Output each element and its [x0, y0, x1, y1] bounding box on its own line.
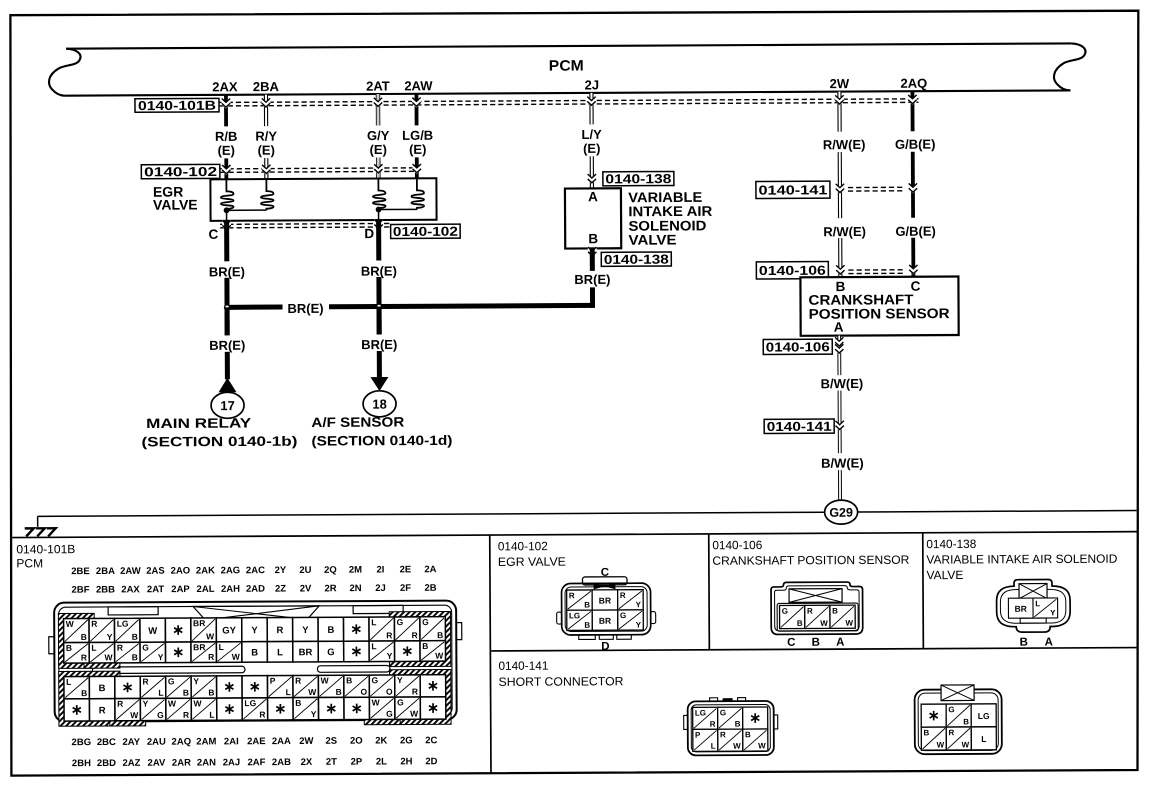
- EGR coil pair join wire left: [227, 209, 267, 211]
- svg-text:2B: 2B: [424, 583, 436, 594]
- PCM connector cell r1c13 L/R: [369, 617, 395, 641]
- short connector right cell r2c1 B/W: [921, 727, 946, 750]
- svg-text:W: W: [130, 710, 139, 720]
- EGR junction dot right: [376, 207, 382, 213]
- short connector left cell r2c1 P/L: [693, 729, 718, 751]
- VISV connector key with cross: [1019, 584, 1047, 599]
- svg-text:G: G: [168, 676, 175, 686]
- svg-text:L: L: [158, 688, 163, 698]
- svg-text:2X: 2X: [301, 757, 313, 768]
- svg-text:L: L: [209, 710, 214, 720]
- svg-text:L: L: [219, 642, 224, 652]
- wire BR(E) to A/F sensor: [377, 307, 382, 335]
- EGR coil winding pin 2AX: [221, 179, 234, 210]
- CKP connector cell frame: [777, 603, 858, 631]
- svg-text:G: G: [386, 709, 393, 719]
- svg-text:2AX: 2AX: [121, 584, 140, 595]
- short connector right cell r1c2 G/B: [946, 704, 971, 727]
- PCM connector cell r1c3 LG/B: [114, 618, 140, 642]
- PCM connector cell r1c12 *: [344, 617, 370, 641]
- svg-text:GY: GY: [222, 625, 236, 636]
- PCM housing slot left: [92, 666, 245, 673]
- svg-text:2AK: 2AK: [196, 565, 215, 576]
- svg-text:2M: 2M: [349, 565, 362, 576]
- PCM housing tab left: [108, 607, 158, 615]
- svg-text:2G: 2G: [400, 735, 413, 746]
- svg-text:Y: Y: [1050, 608, 1056, 617]
- PCM connector cell r4c4 Y/G: [140, 698, 166, 720]
- svg-text:2U: 2U: [299, 565, 311, 576]
- svg-text:2Q: 2Q: [324, 565, 337, 576]
- svg-text:VALVE: VALVE: [628, 231, 676, 247]
- svg-text:(E): (E): [583, 141, 600, 156]
- EGR coil winding pin 2BA: [261, 179, 274, 210]
- svg-text:VALVE: VALVE: [926, 568, 963, 582]
- svg-text:0140-101B: 0140-101B: [16, 542, 75, 556]
- svg-text:2AL: 2AL: [197, 584, 215, 595]
- svg-text:BR: BR: [299, 647, 313, 658]
- EGR connector cell r2c1 LG/B: [567, 610, 593, 630]
- wire label R/Y (E): [255, 129, 277, 158]
- svg-text:W: W: [148, 626, 157, 637]
- hatched frame row4 col3: [112, 696, 143, 724]
- PCM connector cell r3c11 W/B: [318, 675, 344, 697]
- svg-text:LG: LG: [117, 619, 129, 629]
- PCM connector cell r1c8 Y: [242, 618, 268, 642]
- svg-text:2AH: 2AH: [221, 584, 240, 595]
- svg-text:D: D: [364, 226, 374, 241]
- svg-text:B: B: [81, 632, 87, 642]
- EGR connector cell r2c2 BR: [592, 610, 618, 630]
- svg-text:LG: LG: [244, 698, 256, 708]
- PCM connector cell r2c11 G: [318, 641, 344, 662]
- wire BR(E) pin D upper segment: [376, 220, 382, 334]
- short connector right key with cross: [941, 685, 974, 701]
- connector chevron 0140-141 at 2W wire: [836, 183, 845, 194]
- svg-text:W: W: [962, 740, 970, 749]
- arrowhead to A/F sensor (down): [370, 377, 388, 391]
- svg-text:2E: 2E: [400, 564, 412, 575]
- PCM connector cell r4c3 R/W: [115, 698, 141, 720]
- svg-text:0140-106: 0140-106: [766, 339, 830, 354]
- PCM connector cell r3c9 P/L: [267, 675, 293, 697]
- panel divider vertical 2: [708, 534, 711, 650]
- svg-text:B: B: [208, 687, 214, 697]
- svg-text:BR: BR: [193, 618, 205, 628]
- svg-text:2AO: 2AO: [171, 566, 191, 577]
- svg-text:L: L: [91, 643, 96, 653]
- svg-text:B: B: [66, 643, 72, 653]
- svg-text:B: B: [584, 621, 590, 630]
- connector chevron pin D: [374, 219, 383, 230]
- svg-text:G: G: [397, 697, 404, 707]
- svg-text:R: R: [295, 676, 301, 686]
- PCM connector cell r2c15 B/W: [420, 641, 446, 662]
- PCM connector cell r1c4 W: [140, 618, 166, 642]
- svg-text:0140-138: 0140-138: [604, 252, 669, 267]
- CKP connector cell C G/B: [780, 605, 805, 628]
- PCM connector cell r4c1 *: [64, 699, 90, 721]
- svg-text:CRANKSHAFT POSITION SENSOR: CRANKSHAFT POSITION SENSOR: [712, 553, 909, 568]
- svg-text:A: A: [834, 320, 844, 335]
- svg-text:R: R: [386, 630, 392, 640]
- svg-text:R: R: [117, 699, 123, 709]
- wire label G/Y (E): [367, 128, 390, 157]
- PCM connector cell r4c2 R: [89, 699, 115, 721]
- CKP connector pin labels C B A: [787, 637, 844, 649]
- short connector right cell r2c2 R/W: [946, 727, 971, 750]
- label box 0140-141 lower: [764, 419, 834, 433]
- svg-text:B: B: [183, 688, 189, 698]
- svg-text:2Y: 2Y: [275, 565, 287, 576]
- svg-text:2BH: 2BH: [72, 758, 91, 769]
- svg-text:Y: Y: [636, 620, 642, 629]
- svg-text:(SECTION 0140-1b): (SECTION 0140-1b): [141, 434, 297, 450]
- PCM connector cell r3c10 R/W: [293, 675, 319, 697]
- EGR connector housing: [556, 577, 655, 640]
- hatched frame top-right: [392, 614, 448, 664]
- svg-text:2AW: 2AW: [120, 566, 141, 577]
- PCM connector cell r2c6 BR/R: [191, 642, 217, 663]
- svg-text:R: R: [259, 709, 265, 719]
- svg-text:L: L: [371, 617, 376, 627]
- short connector left cell r2c2 R/W: [718, 729, 743, 751]
- svg-text:W: W: [820, 619, 828, 628]
- PCM connector cell r2c14 *: [395, 641, 421, 662]
- svg-text:G: G: [422, 617, 429, 627]
- svg-text:W: W: [758, 741, 766, 750]
- svg-text:(SECTION 0140-1d): (SECTION 0140-1d): [311, 433, 452, 449]
- PCM connector cell r3c13 G/O: [369, 675, 395, 697]
- svg-text:BR: BR: [193, 642, 205, 652]
- connector chevron 0140-101B at 2AX: [222, 98, 231, 109]
- svg-text:2AF: 2AF: [247, 757, 265, 768]
- ground bus line: [38, 511, 1137, 517]
- connector chevron 0140-101B at 2J: [587, 96, 596, 107]
- svg-text:B: B: [1020, 637, 1028, 649]
- svg-text:P: P: [270, 676, 276, 686]
- svg-text:B: B: [735, 720, 741, 729]
- CKP connector cell B R/W: [805, 605, 830, 628]
- VISV connector cell L/Y: [1033, 598, 1058, 618]
- svg-text:2O: 2O: [350, 736, 363, 747]
- connector chevron 0140-138 upper: [587, 173, 596, 184]
- ground terminal G29: [825, 500, 858, 524]
- svg-text:B: B: [99, 683, 106, 694]
- EGR connector cell r1c3 R/Y: [618, 590, 644, 610]
- svg-text:G: G: [327, 647, 334, 658]
- svg-text:W: W: [321, 675, 330, 685]
- svg-text:2J: 2J: [375, 583, 386, 594]
- connector chevron 0140-102: [262, 164, 271, 175]
- svg-text:R: R: [710, 720, 716, 729]
- svg-text:LG: LG: [978, 711, 990, 721]
- label box 0140-138 lower: [601, 252, 671, 266]
- PCM connector cell r3c12 B/O: [344, 675, 370, 697]
- svg-text:G: G: [142, 642, 149, 652]
- svg-text:2BA: 2BA: [96, 566, 115, 577]
- svg-text:BR(E): BR(E): [287, 301, 323, 316]
- wire R/Y(E) from pin 2BA: [264, 95, 269, 179]
- PCM connector cell r2c2 L/W: [89, 642, 115, 663]
- svg-text:VALVE: VALVE: [153, 196, 198, 212]
- svg-text:L: L: [371, 641, 376, 651]
- PCM connector top pin labels row 2: [72, 583, 437, 596]
- svg-text:2P: 2P: [351, 757, 363, 768]
- svg-text:MAIN RELAY: MAIN RELAY: [146, 415, 251, 431]
- svg-text:W: W: [372, 697, 381, 707]
- svg-text:G: G: [948, 705, 954, 714]
- svg-text:2AG: 2AG: [221, 565, 241, 576]
- svg-text:L: L: [1035, 599, 1040, 608]
- variable intake air solenoid valve caption: [628, 189, 712, 248]
- svg-text:R: R: [620, 591, 626, 600]
- svg-text:2AW: 2AW: [404, 78, 433, 93]
- svg-text:G: G: [782, 607, 788, 616]
- connector chevron below CKP (a): [835, 336, 844, 347]
- svg-text:2AQ: 2AQ: [172, 737, 192, 748]
- svg-text:W: W: [733, 742, 741, 751]
- PCM connector cell r1c15 G/B: [420, 617, 446, 641]
- ground symbol chassis: [25, 516, 56, 536]
- wire BR(E) from VISV pin B: [590, 248, 595, 307]
- svg-text:A/F SENSOR: A/F SENSOR: [311, 414, 404, 429]
- svg-text:PCM: PCM: [16, 556, 43, 570]
- label box 0140-101B: [135, 98, 219, 112]
- svg-text:2K: 2K: [375, 735, 387, 746]
- svg-text:2T: 2T: [326, 757, 337, 768]
- svg-text:Y: Y: [311, 709, 317, 719]
- hatched frame row4 col13: [367, 695, 398, 723]
- svg-text:LG: LG: [569, 611, 580, 620]
- PCM connector cell r2c7 L/W: [216, 642, 242, 663]
- PCM housing slot right: [317, 665, 390, 672]
- hatched frame bottom-right upper: [392, 672, 448, 722]
- svg-text:2L: 2L: [376, 756, 387, 767]
- wire B/W(E) from CKP pin A: [837, 336, 842, 501]
- PCM connector cell r1c11 B: [318, 617, 344, 641]
- svg-text:W: W: [937, 740, 945, 749]
- svg-text:0140-101B: 0140-101B: [138, 98, 216, 113]
- svg-text:2S: 2S: [325, 736, 337, 747]
- PCM connector cell r2c12 *: [344, 641, 370, 662]
- svg-text:R: R: [412, 686, 418, 696]
- PCM connector cell r2c13 L/Y: [369, 641, 395, 662]
- PCM connector cell r3c6 Y/B: [191, 676, 217, 698]
- svg-text:BR(E): BR(E): [209, 264, 245, 279]
- svg-text:2AP: 2AP: [171, 584, 190, 595]
- PCM connector bottom pin labels row 2: [72, 756, 438, 769]
- svg-text:W: W: [410, 709, 419, 719]
- svg-text:G: G: [371, 675, 378, 685]
- connector chevron 0140-141 pin: [835, 420, 844, 431]
- svg-text:0140-141: 0140-141: [498, 659, 548, 673]
- svg-text:BR(E): BR(E): [209, 338, 245, 353]
- connector chevron 0140-141 at 2AQ wire: [909, 183, 918, 194]
- variable intake air solenoid valve box: [565, 188, 621, 248]
- svg-text:Y: Y: [636, 600, 642, 609]
- svg-text:EGR VALVE: EGR VALVE: [498, 555, 566, 569]
- A/F sensor caption: [311, 414, 452, 448]
- svg-text:L: L: [286, 687, 291, 697]
- svg-text:G/B(E): G/B(E): [895, 224, 936, 239]
- PCM connector cell r3c7 *: [217, 676, 243, 698]
- svg-text:(E): (E): [218, 143, 235, 158]
- svg-text:R: R: [81, 652, 87, 662]
- svg-text:B: B: [745, 730, 751, 739]
- PCM housing tab right: [353, 605, 403, 613]
- svg-text:2AX: 2AX: [212, 79, 238, 94]
- svg-text:2AZ: 2AZ: [122, 758, 140, 769]
- svg-text:A: A: [836, 637, 844, 649]
- svg-text:0140-106: 0140-106: [712, 538, 762, 552]
- connector chevron below CKP (b): [835, 343, 844, 354]
- EGR connector cell r1c1 R/B: [567, 590, 593, 610]
- svg-text:B: B: [812, 637, 820, 649]
- PCM connector cell r4c12 *: [344, 697, 370, 719]
- svg-text:L: L: [277, 647, 283, 658]
- svg-text:2N: 2N: [349, 583, 361, 594]
- svg-text:R: R: [208, 652, 214, 662]
- CKP connector cell A B/W: [830, 605, 855, 628]
- svg-text:R/W(E): R/W(E): [823, 224, 866, 239]
- svg-text:2AU: 2AU: [147, 737, 166, 748]
- svg-text:2F: 2F: [400, 583, 411, 594]
- svg-text:2BB: 2BB: [96, 584, 115, 595]
- PCM connector cell r1c6 BR/W: [191, 618, 217, 642]
- svg-text:2D: 2D: [425, 756, 437, 767]
- PCM connector cell r4c8 LG/R: [242, 698, 268, 720]
- CKP connector key with cross: [789, 589, 842, 603]
- svg-text:2BF: 2BF: [72, 585, 90, 596]
- svg-text:B: B: [81, 688, 87, 698]
- svg-text:W: W: [435, 651, 444, 661]
- PCM connector cell r4c13 W/G: [369, 697, 395, 719]
- svg-text:2AQ: 2AQ: [900, 76, 927, 91]
- svg-text:W: W: [308, 687, 317, 697]
- label box 0140-138 upper: [603, 171, 674, 185]
- svg-text:B: B: [437, 630, 443, 640]
- svg-text:G: G: [157, 710, 164, 720]
- PCM connector cell r1c5 *: [165, 618, 191, 642]
- svg-text:2BA: 2BA: [253, 79, 280, 94]
- svg-text:2C: 2C: [425, 735, 437, 746]
- svg-text:G: G: [720, 708, 726, 717]
- svg-text:L: L: [66, 677, 71, 687]
- svg-text:2Z: 2Z: [275, 584, 286, 595]
- EGR connector cell r2c3 G/Y: [618, 610, 644, 630]
- PCM housing side bump left: [49, 637, 55, 654]
- PCM connector cell r4c9 *: [268, 698, 294, 720]
- PCM connector cell r1c9 R: [267, 617, 293, 641]
- wire BR(E) horizontal bus: [227, 305, 592, 307]
- svg-text:0140-102: 0140-102: [144, 164, 217, 179]
- svg-text:B: B: [923, 728, 929, 737]
- svg-text:Y: Y: [251, 625, 258, 636]
- svg-text:R: R: [142, 676, 148, 686]
- PCM connector cell r4c10 B/Y: [293, 698, 319, 720]
- svg-text:2AY: 2AY: [122, 737, 140, 748]
- short connector right housing: [915, 689, 1002, 754]
- svg-text:PCM: PCM: [549, 57, 584, 74]
- circle terminal 18: [363, 391, 396, 417]
- connector line 0140-101B (dashed): [219, 99, 918, 103]
- PCM connector cell r1c10 Y: [293, 617, 319, 641]
- svg-text:B/W(E): B/W(E): [821, 376, 864, 391]
- PCM connector cell r4c11 *: [318, 697, 344, 719]
- short connector right cell r1c3 LG: [971, 704, 996, 727]
- svg-text:2I: 2I: [376, 565, 384, 576]
- svg-text:Y: Y: [387, 651, 393, 661]
- VISV connector bottom tab: [1020, 618, 1046, 623]
- PCM module (partial outline): [49, 43, 1086, 95]
- svg-text:2J: 2J: [585, 77, 600, 92]
- svg-text:(E): (E): [370, 142, 387, 157]
- svg-text:17: 17: [220, 398, 235, 413]
- svg-text:R: R: [91, 619, 97, 629]
- svg-text:2BG: 2BG: [72, 737, 92, 748]
- svg-text:0140-102: 0140-102: [498, 539, 548, 553]
- svg-text:A: A: [1045, 637, 1053, 649]
- PCM connector top pin labels row 1: [71, 564, 437, 577]
- svg-text:B: B: [584, 601, 590, 610]
- svg-text:G/B(E): G/B(E): [895, 137, 936, 152]
- svg-text:B: B: [588, 231, 598, 246]
- hatched frame row2 col2: [87, 640, 118, 666]
- svg-text:B: B: [132, 632, 138, 642]
- connector chevron 0140-101B at 2AW: [412, 97, 421, 108]
- svg-text:2W: 2W: [299, 736, 313, 747]
- svg-text:0140-141: 0140-141: [758, 182, 827, 197]
- crankshaft position sensor caption: [808, 291, 949, 322]
- PCM connector cell r4c15 *: [420, 697, 446, 719]
- svg-text:B: B: [327, 625, 334, 636]
- label box 0140-141 upper: [756, 181, 830, 198]
- svg-text:BR(E): BR(E): [361, 337, 397, 352]
- svg-text:2AR: 2AR: [172, 758, 191, 769]
- svg-text:W: W: [232, 652, 241, 662]
- svg-text:C: C: [208, 227, 218, 242]
- connector line 0140-141 (dashed): [848, 186, 905, 188]
- wire BR(E) pin C upper segment: [224, 221, 230, 335]
- panel divider horizontal (short connector): [490, 648, 1137, 651]
- connector chevron 0140-102: [222, 164, 231, 175]
- svg-text:B: B: [832, 606, 838, 615]
- short connector right cell r1c1 *: [921, 704, 946, 727]
- connector chevron 0140-102: [412, 163, 421, 174]
- wire L/Y(E) from pin 2J: [589, 93, 594, 188]
- PCM connector cell r1c1 W/B: [64, 619, 90, 643]
- svg-text:2BD: 2BD: [97, 758, 116, 769]
- svg-text:(E): (E): [258, 143, 275, 158]
- PCM connector housing: [54, 601, 457, 722]
- svg-text:R: R: [183, 710, 189, 720]
- wire BR(E) to main relay: [225, 307, 230, 335]
- wire label R/B (E): [215, 129, 238, 158]
- PCM connector cell r4c14 G/W: [395, 697, 421, 719]
- svg-text:B: B: [336, 687, 342, 697]
- wire G/B(E) from pin 2AQ upper: [911, 91, 916, 276]
- svg-text:2AM: 2AM: [196, 736, 216, 747]
- svg-text:B: B: [422, 641, 428, 651]
- svg-text:R: R: [948, 728, 954, 737]
- PCM connector cell r3c5 G/B: [166, 676, 192, 698]
- arrowhead to main relay (up): [218, 378, 236, 393]
- crankshaft position sensor box: [800, 276, 958, 335]
- panel divider top: [12, 532, 1137, 538]
- svg-text:W: W: [104, 652, 113, 662]
- svg-text:SHORT CONNECTOR: SHORT CONNECTOR: [498, 674, 623, 689]
